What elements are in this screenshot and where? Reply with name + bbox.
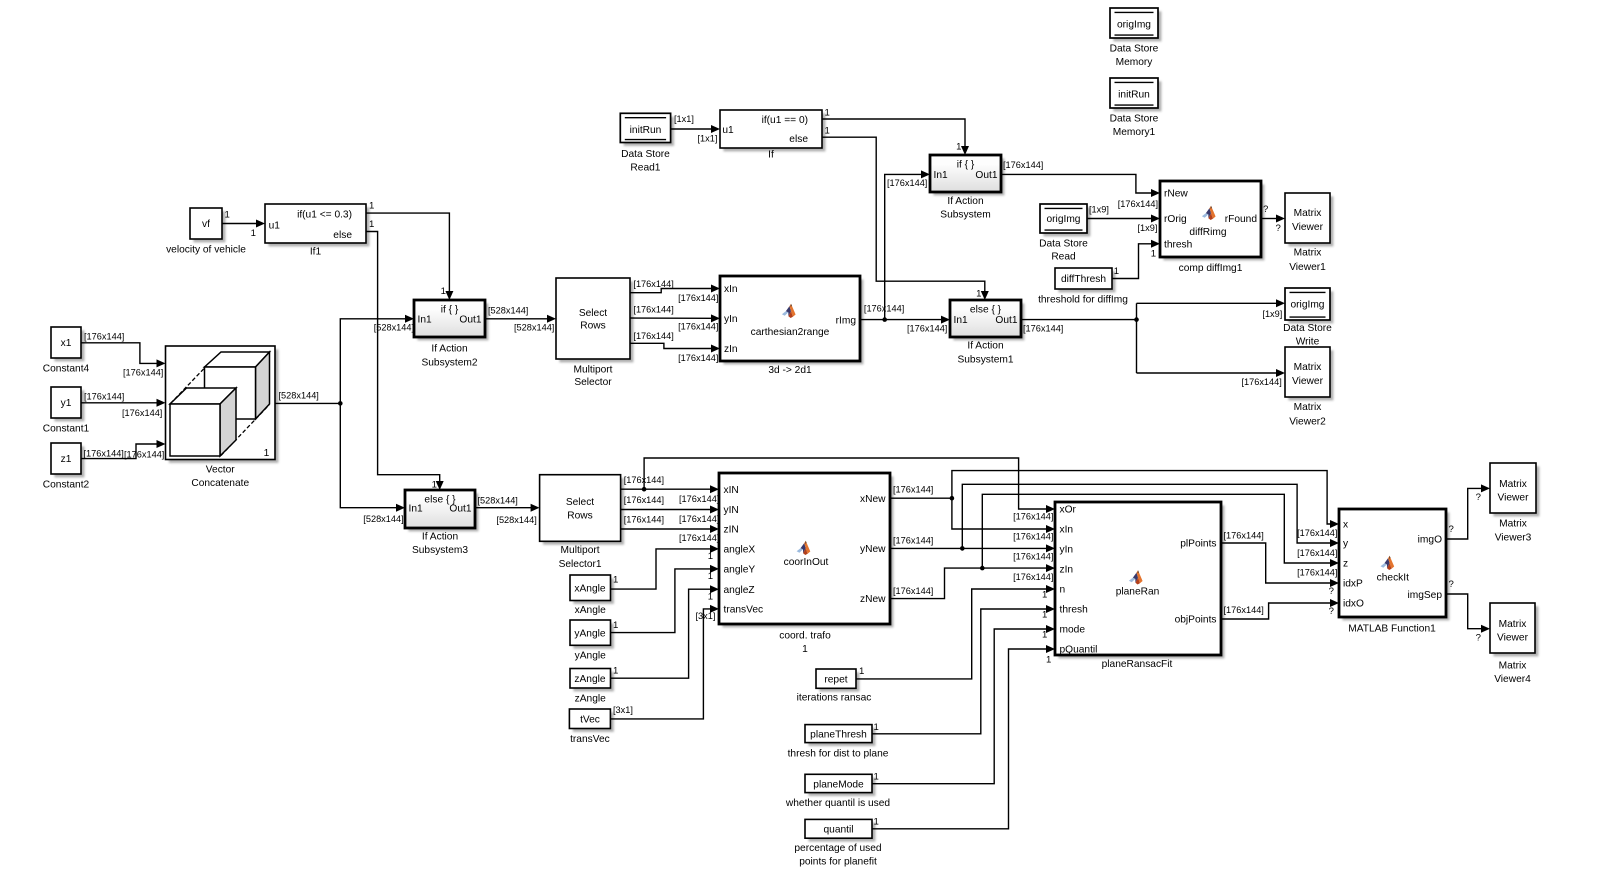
svg-text:Data Store: Data Store xyxy=(1283,323,1332,334)
svg-text:[176x144]: [176x144] xyxy=(678,322,718,332)
svg-text:Selector: Selector xyxy=(574,377,612,388)
svg-text:Read: Read xyxy=(1051,252,1076,263)
svg-text:coord. trafo: coord. trafo xyxy=(779,631,831,642)
if block If (if(u1 == 0)) xyxy=(720,110,825,161)
svg-text:1: 1 xyxy=(859,666,864,677)
svg-text:Matrix: Matrix xyxy=(1499,479,1527,490)
svg-text:1: 1 xyxy=(874,722,879,733)
svg-text:1: 1 xyxy=(874,817,879,828)
svg-text:?: ? xyxy=(1263,204,1268,215)
wire carthesian2range rImg to If Action Subsystem1 In1 and If Action Subsystem In1 xyxy=(860,170,950,333)
wire Multiport Selector1 out3 to coorInOut zIN xyxy=(621,515,720,543)
svg-text:Memory: Memory xyxy=(1116,57,1154,68)
wire If else output to If Action Subsystem1 trigger xyxy=(822,126,989,301)
svg-text:1: 1 xyxy=(264,448,270,459)
svg-text:[1x9]: [1x9] xyxy=(1089,204,1109,214)
wire Multiport Selector out1 to carthesian2range xIn xyxy=(630,279,720,303)
svg-text:repet: repet xyxy=(824,674,847,685)
svg-text:n: n xyxy=(1060,585,1066,596)
svg-text:Select: Select xyxy=(579,308,607,319)
wire If1 output 1 to If Action Subsystem2 trigger xyxy=(366,201,453,301)
svg-text:Constant1: Constant1 xyxy=(43,423,90,434)
svg-text:[176x144]: [176x144] xyxy=(633,331,673,341)
svg-text:comp diffImg1: comp diffImg1 xyxy=(1179,263,1243,274)
matlab function checkIt (MATLAB Function1) xyxy=(1339,509,1449,634)
svg-text:points for planefit: points for planefit xyxy=(799,856,877,867)
svg-text:xAngle: xAngle xyxy=(575,605,606,616)
svg-text:iterations ransac: iterations ransac xyxy=(797,693,872,704)
svg-text:Out1: Out1 xyxy=(459,314,481,325)
svg-text:In1: In1 xyxy=(409,503,423,514)
svg-text:Matrix: Matrix xyxy=(1499,519,1527,530)
matlab function coorInOut (coord. trafo 1) xyxy=(719,473,893,655)
svg-text:transVec: transVec xyxy=(570,734,610,745)
constant y1 (Constant1) xyxy=(43,387,90,434)
svg-text:1: 1 xyxy=(708,571,713,582)
svg-text:yIn: yIn xyxy=(1060,545,1074,556)
wire checkIt imgSep to Matrix Viewer4 xyxy=(1446,579,1490,644)
svg-text:[176x144]: [176x144] xyxy=(84,331,124,341)
wire Multiport Selector1 out1 to coorInOut xIN and planeRansacFit xOr xyxy=(621,458,1055,521)
svg-text:Data Store: Data Store xyxy=(1110,44,1159,55)
svg-text:zAngle: zAngle xyxy=(574,674,605,685)
svg-text:xIN: xIN xyxy=(724,485,739,496)
matrix viewer3 xyxy=(1490,463,1539,544)
svg-text:?: ? xyxy=(1476,633,1481,644)
svg-text:Viewer: Viewer xyxy=(1498,493,1530,504)
svg-text:quantil: quantil xyxy=(823,825,853,836)
svg-text:Selector1: Selector1 xyxy=(559,559,602,570)
svg-text:whether quantil is used: whether quantil is used xyxy=(785,798,891,809)
matrix viewer1 xyxy=(1285,193,1333,273)
svg-text:yIN: yIN xyxy=(724,505,739,516)
svg-text:[528x144]: [528x144] xyxy=(363,514,403,524)
svg-text:[1x1]: [1x1] xyxy=(698,134,718,144)
svg-text:[176x144]: [176x144] xyxy=(624,515,664,525)
svg-text:Out1: Out1 xyxy=(449,503,471,514)
svg-text:Viewer4: Viewer4 xyxy=(1494,674,1531,685)
constant x1 (Constant4) xyxy=(43,327,90,374)
svg-text:Matrix: Matrix xyxy=(1294,208,1322,219)
svg-text:[176x144]: [176x144] xyxy=(887,178,927,188)
svg-text:Memory1: Memory1 xyxy=(1113,127,1156,138)
svg-text:[528x144]: [528x144] xyxy=(279,391,319,401)
svg-text:planeThresh: planeThresh xyxy=(810,729,867,740)
if action subsystem1 (else {}) xyxy=(950,300,1024,365)
svg-text:[176x144]: [176x144] xyxy=(1013,532,1053,542)
svg-text:diffThresh: diffThresh xyxy=(1061,274,1106,285)
svg-text:[176x144]: [176x144] xyxy=(1003,160,1043,170)
svg-text:xIn: xIn xyxy=(1060,525,1074,536)
svg-text:[176x144]: [176x144] xyxy=(1297,568,1337,578)
wire initRun Data Store Read1 to If u1, port 1 xyxy=(671,114,720,144)
svg-text:1: 1 xyxy=(825,126,830,137)
svg-text:planeMode: planeMode xyxy=(813,779,864,790)
svg-text:[176x144]: [176x144] xyxy=(1297,548,1337,558)
constant tVec (transVec) xyxy=(569,709,613,745)
svg-text:checkIt: checkIt xyxy=(1377,573,1409,584)
svg-text:Matrix: Matrix xyxy=(1294,362,1322,373)
svg-text:Constant2: Constant2 xyxy=(43,479,90,490)
multiport selector (Select Rows) xyxy=(556,278,633,388)
svg-text:[176x144]: [176x144] xyxy=(678,353,718,363)
svg-text:planeRansacFit: planeRansacFit xyxy=(1102,659,1173,670)
svg-text:x: x xyxy=(1343,520,1348,531)
svg-text:Viewer: Viewer xyxy=(1292,376,1324,387)
svg-text:[176x144]: [176x144] xyxy=(678,293,718,303)
svg-text:Matrix: Matrix xyxy=(1499,660,1527,671)
svg-text:1: 1 xyxy=(369,201,374,212)
svg-text:1: 1 xyxy=(1114,266,1119,277)
svg-text:thresh: thresh xyxy=(1060,605,1088,616)
svg-text:Subsystem3: Subsystem3 xyxy=(412,545,468,556)
svg-text:rNew: rNew xyxy=(1164,189,1188,200)
svg-text:if(u1 == 0): if(u1 == 0) xyxy=(762,115,808,126)
svg-text:Subsystem: Subsystem xyxy=(940,210,990,221)
svg-text:[176x144]: [176x144] xyxy=(893,586,933,596)
MATLAB logo coorInOut xyxy=(797,541,811,555)
svg-text:Matrix: Matrix xyxy=(1499,619,1527,630)
svg-text:[176x144]: [176x144] xyxy=(1013,552,1053,562)
svg-text:If Action: If Action xyxy=(422,532,458,543)
svg-text:[528x144]: [528x144] xyxy=(374,322,414,332)
svg-text:angleY: angleY xyxy=(724,565,756,576)
svg-text:Viewer: Viewer xyxy=(1292,222,1324,233)
svg-text:If Action: If Action xyxy=(947,196,983,207)
svg-text:velocity of vehicle: velocity of vehicle xyxy=(166,244,246,255)
wire Vector Concatenate output to If Action Subsystem2 In1 and If Action Subsystem3 In1 xyxy=(276,315,415,524)
svg-text:[176x144]: [176x144] xyxy=(893,485,933,495)
svg-text:diffRimg: diffRimg xyxy=(1189,227,1227,238)
svg-text:[528x144]: [528x144] xyxy=(496,515,536,525)
svg-text:1: 1 xyxy=(1042,610,1047,621)
svg-text:plPoints: plPoints xyxy=(1180,539,1216,550)
svg-text:Multiport: Multiport xyxy=(573,365,612,376)
svg-text:else: else xyxy=(789,134,808,145)
svg-text:rImg: rImg xyxy=(836,316,857,327)
svg-text:coorInOut: coorInOut xyxy=(784,557,829,568)
svg-text:Viewer3: Viewer3 xyxy=(1495,533,1532,544)
svg-text:origImg: origImg xyxy=(1117,20,1151,31)
wire If Action Subsystem3 Out1 to Multiport Selector1 xyxy=(475,496,540,526)
svg-text:If: If xyxy=(768,150,774,161)
constant vf (velocity of vehicle) xyxy=(166,208,246,255)
constant planeMode (whether quantil is used) xyxy=(785,774,891,809)
svg-text:[1x9]: [1x9] xyxy=(1262,309,1282,319)
vector concatenate block xyxy=(166,346,279,489)
svg-text:threshold for diffImg: threshold for diffImg xyxy=(1038,295,1128,306)
svg-text:[176x144]: [176x144] xyxy=(907,323,947,333)
svg-text:?: ? xyxy=(1476,492,1481,503)
svg-text:Viewer: Viewer xyxy=(1497,633,1529,644)
svg-text:planeRan: planeRan xyxy=(1116,587,1160,598)
wire Multiport Selector out2 to carthesian2range yIn xyxy=(630,305,720,332)
svg-text:z1: z1 xyxy=(61,454,72,465)
svg-text:Rows: Rows xyxy=(567,511,592,522)
svg-text:[176x144]: [176x144] xyxy=(123,368,163,378)
svg-text:origImg: origImg xyxy=(1047,214,1081,225)
svg-text:[176x144]: [176x144] xyxy=(679,494,719,504)
svg-text:zIN: zIN xyxy=(724,525,739,536)
svg-text:initRun: initRun xyxy=(1118,90,1150,101)
svg-text:If Action: If Action xyxy=(967,341,1003,352)
svg-text:In1: In1 xyxy=(954,315,968,326)
svg-text:z: z xyxy=(1343,559,1348,570)
svg-text:xAngle: xAngle xyxy=(574,584,605,595)
svg-text:Out1: Out1 xyxy=(995,315,1017,326)
svg-text:Read1: Read1 xyxy=(630,163,660,174)
svg-text:1: 1 xyxy=(1042,589,1047,600)
svg-text:Multiport: Multiport xyxy=(561,545,600,556)
svg-text:Data Store: Data Store xyxy=(1110,114,1159,125)
svg-text:[528x144]: [528x144] xyxy=(478,496,518,506)
svg-text:idxP: idxP xyxy=(1343,579,1363,590)
constant quantil (percentage of used points for planefit) xyxy=(794,819,882,867)
svg-text:[176x144]: [176x144] xyxy=(124,450,164,460)
constant z1 (Constant2) xyxy=(43,443,90,490)
svg-text:1: 1 xyxy=(369,219,374,230)
wire vf to If1 u1, port 1 xyxy=(222,209,265,239)
svg-text:Matrix: Matrix xyxy=(1294,248,1322,259)
svg-text:imgO: imgO xyxy=(1418,535,1442,546)
svg-text:else { }: else { } xyxy=(970,305,1002,316)
svg-text:1: 1 xyxy=(1046,654,1051,665)
svg-text:rFound: rFound xyxy=(1225,214,1258,225)
svg-text:1: 1 xyxy=(441,286,446,297)
svg-text:origImg: origImg xyxy=(1291,300,1325,311)
wire xAngle to coorInOut angleX xyxy=(611,545,720,589)
svg-text:[176x144]: [176x144] xyxy=(1118,199,1158,209)
data store memory origImg xyxy=(1110,8,1162,68)
svg-text:zIn: zIn xyxy=(1060,565,1074,576)
svg-text:1: 1 xyxy=(432,480,437,491)
MATLAB logo diffRimg xyxy=(1202,206,1216,220)
svg-text:[176x144]: [176x144] xyxy=(84,391,124,401)
wire coorInOut xNew to planeRansacFit xIn and checkIt x xyxy=(890,471,1339,542)
constant diffThresh (threshold for diffImg) xyxy=(1038,268,1128,306)
constant zAngle xyxy=(570,669,614,705)
svg-text:[3x1]: [3x1] xyxy=(613,705,633,715)
svg-text:initRun: initRun xyxy=(630,125,662,136)
svg-text:[176x144]: [176x144] xyxy=(864,303,904,313)
wire If Action Subsystem Out1 to diffRimg rNew xyxy=(1001,160,1160,209)
svg-text:transVec: transVec xyxy=(724,605,764,616)
svg-text:yAngle: yAngle xyxy=(575,650,606,661)
svg-text:[528x144]: [528x144] xyxy=(488,305,528,315)
MATLAB logo carthesian2range xyxy=(782,304,796,318)
svg-text:1: 1 xyxy=(251,228,256,239)
wire checkIt imgO to Matrix Viewer3 xyxy=(1446,484,1490,539)
svg-text:?: ? xyxy=(1449,579,1454,590)
svg-text:In1: In1 xyxy=(418,314,432,325)
svg-text:In1: In1 xyxy=(934,170,948,181)
if action subsystem2 (if {}) xyxy=(414,300,488,368)
svg-text:[176x144]: [176x144] xyxy=(84,448,124,458)
wire If1 else output to If Action Subsystem3 trigger xyxy=(366,219,444,491)
matrix viewer4 xyxy=(1490,603,1538,685)
svg-text:idxO: idxO xyxy=(1343,599,1364,610)
svg-text:yAngle: yAngle xyxy=(574,628,605,639)
svg-text:Matrix: Matrix xyxy=(1294,402,1322,413)
svg-text:Constant4: Constant4 xyxy=(43,363,90,374)
svg-text:Viewer2: Viewer2 xyxy=(1289,417,1326,428)
svg-text:Rows: Rows xyxy=(580,321,605,332)
svg-text:vf: vf xyxy=(202,219,210,230)
svg-text:thresh: thresh xyxy=(1164,239,1192,250)
constant xAngle xyxy=(570,575,614,616)
svg-text:1: 1 xyxy=(708,591,713,602)
svg-text:zNew: zNew xyxy=(860,594,886,605)
svg-text:zIn: zIn xyxy=(724,344,738,355)
matrix viewer2 xyxy=(1285,347,1333,428)
svg-text:yNew: yNew xyxy=(860,544,886,555)
svg-text:1: 1 xyxy=(976,288,981,299)
matlab function planeRan (planeRansacFit) xyxy=(1055,502,1224,670)
svg-text:Subsystem2: Subsystem2 xyxy=(421,357,477,368)
svg-text:[176x144]: [176x144] xyxy=(633,305,673,315)
wire planeRansacFit plPoints to checkIt idxP xyxy=(1221,530,1339,597)
svg-text:1: 1 xyxy=(613,666,618,677)
svg-text:1: 1 xyxy=(802,644,808,655)
svg-text:yIn: yIn xyxy=(724,314,738,325)
svg-text:pQuantil: pQuantil xyxy=(1060,645,1098,656)
wire Multiport Selector out3 to carthesian2range zIn xyxy=(630,331,720,363)
wire origImg Data Store Read to diffRimg rOrig xyxy=(1087,204,1160,233)
svg-text:Out1: Out1 xyxy=(975,170,997,181)
svg-text:angleX: angleX xyxy=(724,545,756,556)
wire zAngle to coorInOut angleZ xyxy=(611,585,720,678)
wire coorInOut zNew to planeRansacFit zIn and checkIt z xyxy=(890,494,1339,598)
svg-text:Write: Write xyxy=(1296,336,1320,347)
svg-text:1: 1 xyxy=(956,142,961,153)
constant planeThresh (thresh for dist to plane) xyxy=(788,725,889,760)
svg-text:carthesian2range: carthesian2range xyxy=(751,327,830,338)
svg-text:?: ? xyxy=(1329,606,1334,617)
svg-text:xNew: xNew xyxy=(860,494,886,505)
data store write origImg xyxy=(1283,288,1333,347)
if action subsystem (if {}) xyxy=(930,155,1004,221)
wire y1 to Vector Concatenate input 2 xyxy=(81,391,166,418)
svg-text:If1: If1 xyxy=(310,247,322,258)
svg-text:1: 1 xyxy=(613,620,618,631)
MATLAB logo checkIt xyxy=(1381,556,1395,570)
svg-text:[176x144]: [176x144] xyxy=(633,279,673,289)
svg-text:[176x144]: [176x144] xyxy=(1013,572,1053,582)
svg-text:tVec: tVec xyxy=(580,714,600,725)
wire tVec to coorInOut transVec xyxy=(610,605,719,719)
svg-text:[1x9]: [1x9] xyxy=(1138,223,1158,233)
wire If output 1 to If Action Subsystem trigger xyxy=(822,107,969,155)
svg-text:else: else xyxy=(333,230,352,241)
wire coorInOut yNew to planeRansacFit yIn and checkIt y xyxy=(890,484,1339,561)
svg-text:?: ? xyxy=(1449,524,1454,535)
wire planeThresh to planeRansacFit thresh xyxy=(872,605,1055,734)
svg-text:1: 1 xyxy=(1042,629,1047,640)
svg-text:3d -> 2d1: 3d -> 2d1 xyxy=(768,365,812,376)
svg-text:Viewer1: Viewer1 xyxy=(1289,262,1326,273)
svg-text:[176x144]: [176x144] xyxy=(1013,511,1053,521)
svg-text:[176x144]: [176x144] xyxy=(624,495,664,505)
wire x1 to Vector Concatenate input 1 xyxy=(81,331,166,377)
wire planeRansacFit objPoints to checkIt idxO xyxy=(1221,599,1339,619)
svg-text:If Action: If Action xyxy=(431,344,467,355)
svg-text:?: ? xyxy=(1329,586,1334,597)
if action subsystem3 (else {}) xyxy=(405,490,478,556)
svg-text:if(u1 <= 0.3): if(u1 <= 0.3) xyxy=(297,210,352,221)
svg-text:[528x144]: [528x144] xyxy=(514,322,554,332)
svg-text:y1: y1 xyxy=(61,398,72,409)
svg-text:Concatenate: Concatenate xyxy=(191,478,249,489)
wire quantil to planeRansacFit pQuantil xyxy=(872,645,1055,829)
svg-text:1: 1 xyxy=(874,772,879,783)
matlab function carthesian2range (3d -> 2d1) xyxy=(720,276,863,376)
svg-text:xIn: xIn xyxy=(724,284,738,295)
svg-text:u1: u1 xyxy=(722,125,734,136)
wire diffThresh to diffRimg thresh xyxy=(1112,240,1160,279)
svg-text:[176x144]: [176x144] xyxy=(1224,605,1264,615)
wire yAngle to coorInOut angleY xyxy=(611,565,720,633)
svg-text:[176x144]: [176x144] xyxy=(679,514,719,524)
svg-text:[3x1]: [3x1] xyxy=(695,611,715,621)
svg-text:Vector: Vector xyxy=(206,464,235,475)
wire diffRimg rFound to Matrix Viewer1 xyxy=(1261,204,1285,234)
wire If Action Subsystem2 Out1 to Multiport Selector xyxy=(485,305,556,332)
if block If1 (if(u1 <= 0.3)) xyxy=(265,204,369,258)
constant repet (iterations ransac) xyxy=(797,669,872,704)
svg-text:u1: u1 xyxy=(269,220,281,231)
data store memory1 initRun xyxy=(1110,78,1162,138)
svg-text:percentage of used: percentage of used xyxy=(794,843,882,854)
svg-text:objPoints: objPoints xyxy=(1175,615,1217,626)
wire If Action Subsystem1 Out1 to Data Store Write and Matrix Viewer2 xyxy=(1021,299,1285,387)
svg-text:[176x144]: [176x144] xyxy=(1224,530,1264,540)
svg-text:1: 1 xyxy=(708,551,713,562)
svg-text:imgSep: imgSep xyxy=(1407,590,1442,601)
svg-text:[176x144]: [176x144] xyxy=(1297,528,1337,538)
svg-text:[176x144]: [176x144] xyxy=(679,533,719,543)
svg-text:Select: Select xyxy=(566,497,594,508)
multiport selector1 (Select Rows) xyxy=(540,475,624,570)
svg-text:?: ? xyxy=(1276,223,1281,234)
svg-text:1: 1 xyxy=(225,209,230,220)
data store read1 initRun xyxy=(620,113,674,173)
svg-text:rOrig: rOrig xyxy=(1164,214,1187,225)
svg-text:Data Store: Data Store xyxy=(1039,239,1088,250)
svg-text:Data Store: Data Store xyxy=(621,149,670,160)
svg-text:[176x144]: [176x144] xyxy=(1023,323,1063,333)
svg-text:[176x144]: [176x144] xyxy=(122,408,162,418)
svg-text:mode: mode xyxy=(1060,625,1086,636)
wire repet to planeRansacFit n xyxy=(856,585,1055,679)
svg-text:1: 1 xyxy=(1151,248,1156,259)
wire z1 to Vector Concatenate input 3 xyxy=(81,440,166,460)
svg-text:MATLAB Function1: MATLAB Function1 xyxy=(1348,623,1436,634)
svg-text:[176x144]: [176x144] xyxy=(1241,377,1281,387)
MATLAB logo planeRan xyxy=(1129,570,1143,584)
svg-text:if { }: if { } xyxy=(957,160,975,171)
wire planeMode to planeRansacFit mode xyxy=(872,625,1055,784)
svg-text:angleZ: angleZ xyxy=(724,585,755,596)
matlab function diffRimg (comp diffImg1) xyxy=(1160,181,1264,274)
svg-text:zAngle: zAngle xyxy=(575,694,606,705)
svg-text:[176x144]: [176x144] xyxy=(893,535,933,545)
constant yAngle xyxy=(570,620,614,661)
svg-text:1: 1 xyxy=(825,107,830,118)
svg-text:[176x144]: [176x144] xyxy=(624,475,664,485)
svg-text:[1x1]: [1x1] xyxy=(674,114,694,124)
svg-text:if { }: if { } xyxy=(441,305,459,316)
svg-text:thresh for dist to plane: thresh for dist to plane xyxy=(788,748,889,759)
